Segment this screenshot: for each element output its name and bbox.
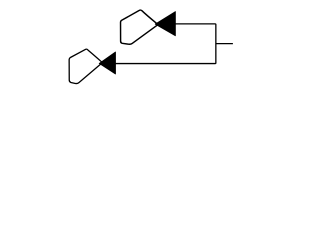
wire: output stub (T junction to the right) (216, 43, 233, 45)
loop element 1 (upper pentagon loop) (121, 10, 158, 44)
loop element 2 (lower pentagon loop) (69, 49, 101, 83)
wire: upper output right, corner down, left to lower triangle (116, 24, 216, 64)
arrowhead triangle 2 (lower, pointing left) (99, 52, 115, 74)
arrowhead triangle 1 (upper, pointing left) (155, 12, 175, 36)
